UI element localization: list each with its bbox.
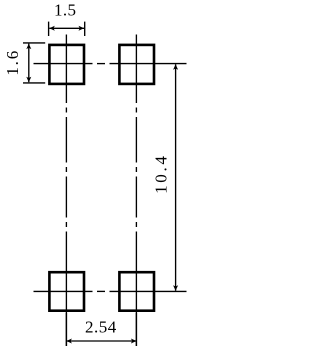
dimension 1.6 arrow up bbox=[26, 44, 31, 50]
dimension 10.4 label (rotated) bbox=[151, 153, 170, 194]
centerline vertical right column bbox=[135, 35, 137, 347]
dimension 2.54 line bbox=[66, 340, 136, 342]
dimension 1.6 line bbox=[28, 44, 30, 83]
pad P1 (top-left square) bbox=[49, 45, 84, 84]
dimension 10.4 arrow down bbox=[173, 285, 178, 291]
dimension 2.54 extension lines bbox=[66, 313, 136, 346]
dimension 1.5 extension bars bbox=[49, 22, 85, 36]
dimension 1.6 label (rotated) bbox=[3, 49, 22, 76]
centerline horizontal bottom row bbox=[34, 290, 187, 292]
pad P4 (bottom-right square) bbox=[119, 272, 154, 311]
dimension 2.54 arrow right bbox=[131, 339, 137, 344]
pad P3 (bottom-left square) bbox=[49, 272, 84, 311]
svg-text:1.6: 1.6 bbox=[3, 49, 22, 76]
centerline horizontal top row bbox=[34, 63, 187, 65]
dimension 1.5 line bbox=[49, 27, 84, 29]
svg-text:10.4: 10.4 bbox=[151, 153, 170, 194]
dimension 1.6 extension lines bbox=[23, 43, 45, 83]
dimension 1.5 arrow left bbox=[49, 26, 55, 31]
dimension 2.54 arrow left bbox=[66, 339, 72, 344]
dimension 10.4 line bbox=[175, 64, 177, 290]
svg-text:1.5: 1.5 bbox=[54, 1, 76, 20]
svg-text:2.54: 2.54 bbox=[85, 318, 117, 337]
centerline vertical left column bbox=[65, 35, 67, 347]
dimension 1.5 arrow right bbox=[79, 26, 85, 31]
dimension 1.6 arrow down bbox=[26, 77, 31, 83]
dimension 10.4 arrow up bbox=[173, 64, 178, 70]
pad P2 (top-right square) bbox=[119, 45, 154, 84]
